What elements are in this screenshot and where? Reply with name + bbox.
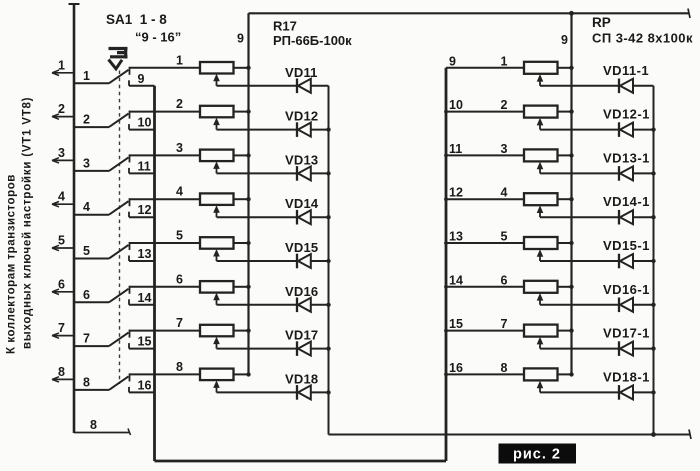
wire RP.2 terminal to bus xyxy=(558,111,572,113)
junction cable wire 13 xyxy=(444,241,448,245)
svg-text:1: 1 xyxy=(501,54,508,68)
input arrow 7 xyxy=(52,333,59,338)
potentiometer R17.2 body xyxy=(200,106,234,118)
junction VD12 cathode bus xyxy=(326,127,330,131)
wire 8 stub end tick xyxy=(128,429,131,436)
wire RP.4 terminal to bus xyxy=(558,198,572,200)
wire RP.3 terminal to bus xyxy=(558,154,572,156)
wire contact 10 to cable xyxy=(129,129,155,131)
svg-text:9: 9 xyxy=(449,54,456,68)
junction of RP diode bus with output wire xyxy=(651,432,656,437)
wire R17.7 terminal to bus xyxy=(234,330,249,332)
svg-text:7: 7 xyxy=(176,316,183,330)
wire to R17 pin 5 xyxy=(130,242,201,244)
diode VD12-1 xyxy=(619,122,633,137)
svg-text:4: 4 xyxy=(58,190,65,204)
wire to R17 pin 2 xyxy=(130,111,201,113)
wire cable 10 to RP pin 2 xyxy=(446,111,524,113)
wire input 5 xyxy=(52,247,74,249)
svg-text:6: 6 xyxy=(83,288,90,302)
junction VD14 cathode bus xyxy=(326,215,330,219)
svg-text:16: 16 xyxy=(449,361,463,375)
diode VD13-1 xyxy=(619,166,633,181)
svg-text:4: 4 xyxy=(501,186,508,200)
potentiometer RP.3 wiper arrow xyxy=(537,162,544,170)
svg-text:RP: RP xyxy=(592,15,611,30)
wire contact 12 to cable xyxy=(129,216,155,218)
svg-text:1: 1 xyxy=(83,69,90,83)
svg-text:11: 11 xyxy=(138,159,151,173)
svg-text:14: 14 xyxy=(449,273,463,287)
wire RP.1 wiper to diode xyxy=(540,85,619,87)
svg-text:8: 8 xyxy=(501,361,508,375)
wire to R17 pin 3 xyxy=(130,154,201,156)
wire contact 15 to cable xyxy=(129,348,155,350)
svg-text:7: 7 xyxy=(83,332,90,346)
junction VD18-1 anode bus xyxy=(651,390,655,394)
svg-text:R17: R17 xyxy=(273,19,297,34)
switch SA1.3 blade xyxy=(109,157,129,171)
potentiometer R17.2 wiper arrow xyxy=(213,118,220,126)
switch SA1.1 upper contact xyxy=(129,67,131,75)
wire RP.3 wiper to diode xyxy=(540,172,619,174)
svg-text:VD12-1: VD12-1 xyxy=(603,107,650,122)
junction RP.6 terminal xyxy=(569,285,573,289)
svg-text:4: 4 xyxy=(83,200,90,214)
wire RP.6 wiper to diode xyxy=(540,304,619,306)
switch SA1.1 blade xyxy=(109,70,129,84)
junction VD15-1 anode bus xyxy=(651,259,655,263)
wire VD15 to cathode bus xyxy=(311,260,329,262)
switch SA1.6 common wire xyxy=(74,301,109,303)
wire R17.4 wiper to diode xyxy=(217,216,297,218)
wire input 1 xyxy=(52,72,74,74)
input arrow 1 xyxy=(52,70,59,75)
switch SA1.5 blade xyxy=(109,245,129,259)
svg-text:VD18: VD18 xyxy=(285,371,318,386)
diode VD13 xyxy=(297,166,311,181)
wire VD11-1 to anode bus xyxy=(633,85,654,87)
wire input 7 xyxy=(52,335,74,337)
junction cable wire 15 xyxy=(444,329,448,333)
potentiometer RP.6 body xyxy=(524,281,558,293)
potentiometer R17.5 wiper arrow xyxy=(213,249,220,257)
diode VD15-1 xyxy=(619,254,633,269)
wire R17.7 wiper to diode xyxy=(217,348,297,350)
cable bus riser of RP section xyxy=(445,68,448,461)
wire contact 9 to cable xyxy=(129,85,155,87)
junction VD18 cathode bus xyxy=(326,390,330,394)
R17 pin9 terminal bus xyxy=(247,13,249,374)
svg-text:“9 - 16”: “9 - 16” xyxy=(135,30,181,45)
svg-text:6: 6 xyxy=(501,273,508,287)
wire R17.1 terminal to bus xyxy=(234,67,249,69)
switch SA1.5 lower contact xyxy=(128,256,130,262)
junction RP.8 terminal xyxy=(569,372,573,376)
cable bottom run to RP section xyxy=(155,460,447,463)
wire R17.1 wiper to diode xyxy=(217,85,297,87)
svg-text:2: 2 xyxy=(501,98,508,112)
svg-text:4: 4 xyxy=(176,185,183,199)
top supply wire xyxy=(249,12,690,14)
diode VD11 xyxy=(297,79,311,94)
wire VD18-1 to anode bus xyxy=(633,391,654,393)
svg-text:13: 13 xyxy=(449,230,463,244)
wire contact 16 to cable xyxy=(129,391,155,393)
wire VD13-1 to anode bus xyxy=(633,172,654,174)
wire contact 11 to cable xyxy=(129,172,155,174)
switch SA1.2 blade xyxy=(109,114,129,128)
potentiometer RP.4 body xyxy=(524,193,558,205)
svg-text:2: 2 xyxy=(83,113,90,127)
switch SA1.5 common wire xyxy=(74,258,109,260)
junction RP.3 terminal xyxy=(569,153,573,157)
wire to R17 pin 1 xyxy=(130,67,201,69)
wire VD12-1 to anode bus xyxy=(633,129,654,131)
svg-text:3: 3 xyxy=(176,141,183,155)
switch SA1.1 common wire xyxy=(74,82,109,84)
svg-text:VD13: VD13 xyxy=(285,152,318,167)
svg-text:VD17: VD17 xyxy=(285,328,318,343)
junction R17.3 terminal xyxy=(246,153,250,157)
wire R17.3 wiper to diode xyxy=(217,172,297,174)
potentiometer RP.2 body xyxy=(524,106,558,118)
RP diode anode bus xyxy=(653,86,655,435)
svg-text:6: 6 xyxy=(176,272,183,286)
switch SA1.6 upper contact xyxy=(129,286,131,294)
junction VD16 cathode bus xyxy=(326,303,330,307)
junction RP.4 terminal xyxy=(569,197,573,201)
potentiometer RP.3 body xyxy=(524,149,558,161)
svg-text:VD15-1: VD15-1 xyxy=(603,238,650,253)
potentiometer RP.8 wiper arrow xyxy=(537,381,544,389)
potentiometer R17.4 wiper arrow xyxy=(213,205,220,213)
wire contact 13 to cable xyxy=(129,260,155,262)
svg-text:14: 14 xyxy=(138,291,152,305)
wire VD14 to cathode bus xyxy=(311,216,329,218)
wire R17.2 wiper to diode xyxy=(217,129,297,131)
potentiometer R17.6 body xyxy=(200,281,234,293)
junction VD17 cathode bus xyxy=(326,346,330,350)
svg-text:выходных ключей настройки (VT1: выходных ключей настройки (VT1 VT8) xyxy=(22,97,34,349)
switch SA1.7 lower contact xyxy=(128,343,130,349)
svg-text:СП 3-42 8х100к: СП 3-42 8х100к xyxy=(592,31,693,46)
switch SA1.8 lower contact xyxy=(128,387,130,393)
potentiometer R17.1 body xyxy=(200,62,234,74)
diode VD15 xyxy=(297,254,311,269)
junction RP.2 terminal xyxy=(569,109,573,113)
switch SA1.4 upper contact xyxy=(129,198,131,206)
potentiometer RP.1 wiper arrow xyxy=(537,74,544,82)
svg-text:К коллекторам транзисторов: К коллекторам транзисторов xyxy=(6,174,18,354)
wire RP.4 wiper to diode xyxy=(540,216,619,218)
wire input 4 xyxy=(52,203,74,205)
svg-text:5: 5 xyxy=(501,230,508,244)
junction VD13-1 anode bus xyxy=(651,171,655,175)
junction VD15 cathode bus xyxy=(326,259,330,263)
wire R17.6 wiper to diode xyxy=(217,304,297,306)
switch SA1.4 common wire xyxy=(74,214,109,216)
diode VD16-1 xyxy=(619,298,633,313)
svg-text:VD16: VD16 xyxy=(285,284,318,299)
diode VD14-1 xyxy=(619,210,633,225)
input arrow 2 xyxy=(52,114,59,119)
svg-text:2: 2 xyxy=(176,97,183,111)
wire VD17 to cathode bus xyxy=(311,348,329,350)
diode VD18-1 xyxy=(619,385,633,400)
potentiometer R17.7 wiper arrow xyxy=(213,337,220,345)
wire RP.7 terminal to bus xyxy=(558,330,572,332)
svg-text:9: 9 xyxy=(237,32,244,46)
svg-text:8: 8 xyxy=(58,365,65,379)
svg-text:1: 1 xyxy=(58,58,65,72)
svg-text:VD13-1: VD13-1 xyxy=(603,150,650,165)
left input cable bus xyxy=(73,4,76,433)
potentiometer R17.4 body xyxy=(200,193,234,205)
junction cable wire 14 xyxy=(444,285,448,289)
potentiometer RP.4 wiper arrow xyxy=(537,205,544,213)
switch SA1.6 blade xyxy=(109,289,129,303)
wire RP.1 terminal to bus xyxy=(558,67,572,69)
wire RP.8 terminal to bus xyxy=(558,373,572,375)
junction VD12-1 anode bus xyxy=(651,127,655,131)
svg-text:3: 3 xyxy=(501,142,508,156)
potentiometer RP.2 wiper arrow xyxy=(537,118,544,126)
wire VD17-1 to anode bus xyxy=(633,348,654,350)
svg-text:16: 16 xyxy=(138,378,152,392)
svg-text:8: 8 xyxy=(83,375,90,389)
potentiometer R17.8 body xyxy=(200,369,234,381)
svg-text:5: 5 xyxy=(176,229,183,243)
cable bus of contacts 9-16 (left) xyxy=(153,86,156,461)
svg-text:11: 11 xyxy=(449,142,462,156)
gang dashed line of SA1 xyxy=(119,71,121,385)
diode VD16 xyxy=(297,298,311,313)
svg-text:VD14: VD14 xyxy=(285,196,319,211)
wire VD18 to cathode bus xyxy=(311,391,329,393)
wire R17.6 terminal to bus xyxy=(234,286,249,288)
junction RP.7 terminal xyxy=(569,328,573,332)
input arrow 6 xyxy=(52,289,59,294)
switch SA1.1 lower contact xyxy=(128,80,130,86)
junction cable wire 11 xyxy=(444,154,448,158)
potentiometer RP.5 wiper arrow xyxy=(537,249,544,257)
diode VD18 xyxy=(297,385,311,400)
caption ris. 2 xyxy=(499,444,577,464)
switch SA1.3 common wire xyxy=(74,170,109,172)
potentiometer R17.3 wiper arrow xyxy=(213,161,220,169)
output wire at bottom xyxy=(329,434,691,436)
wire to R17 pin 8 xyxy=(130,373,201,375)
input arrow 4 xyxy=(52,202,59,207)
switch SA1.2 upper contact xyxy=(129,111,131,119)
wire VD14-1 to anode bus xyxy=(633,216,654,218)
potentiometer RP.7 body xyxy=(524,325,558,337)
junction VD14-1 anode bus xyxy=(651,215,655,219)
wire VD16 to cathode bus xyxy=(311,304,329,306)
svg-text:15: 15 xyxy=(138,335,152,349)
svg-text:9: 9 xyxy=(561,33,568,47)
svg-text:РП-66Б-100к: РП-66Б-100к xyxy=(273,33,352,48)
svg-text:2: 2 xyxy=(58,102,65,116)
input arrow 8 xyxy=(52,377,59,382)
switch SA1.7 upper contact xyxy=(129,330,131,338)
svg-text:VD12: VD12 xyxy=(285,109,318,124)
junction R17.8 terminal xyxy=(246,372,250,376)
svg-text:7: 7 xyxy=(501,317,508,331)
svg-text:VD15: VD15 xyxy=(285,240,318,255)
wire cable 16 to RP pin 8 xyxy=(446,373,524,375)
junction of RP pin9 bus with top wire xyxy=(569,11,574,16)
svg-text:5: 5 xyxy=(83,244,90,258)
wire input 8 xyxy=(52,378,74,380)
svg-text:5: 5 xyxy=(58,234,65,248)
wire 8 stub at bottom xyxy=(74,432,129,434)
wire VD13 to cathode bus xyxy=(311,172,329,174)
svg-text:13: 13 xyxy=(138,247,152,261)
svg-text:7: 7 xyxy=(58,321,65,335)
junction cable wire 12 xyxy=(444,197,448,201)
potentiometer R17.6 wiper arrow xyxy=(213,293,220,301)
wire contact 14 to cable xyxy=(129,304,155,306)
svg-text:VD14-1: VD14-1 xyxy=(603,194,650,209)
potentiometer R17.5 body xyxy=(200,237,234,249)
left bus top tick xyxy=(69,3,80,5)
junction cable wire 10 xyxy=(444,110,448,114)
svg-text:3: 3 xyxy=(83,156,90,170)
svg-text:9: 9 xyxy=(138,72,145,86)
top wire end tick xyxy=(688,9,690,19)
output wire end tick xyxy=(689,430,691,440)
wire R17.2 terminal to bus xyxy=(234,111,249,113)
junction R17.2 terminal xyxy=(246,109,250,113)
switch SA1.8 common wire xyxy=(74,389,109,391)
svg-text:рис. 2: рис. 2 xyxy=(513,447,561,463)
junction RP.1 terminal xyxy=(569,66,573,70)
potentiometer R17.1 wiper arrow xyxy=(213,74,220,82)
wire RP.6 terminal to bus xyxy=(558,286,572,288)
svg-text:12: 12 xyxy=(138,203,152,217)
potentiometer RP.5 body xyxy=(524,237,558,249)
junction VD13 cathode bus xyxy=(326,171,330,175)
wire VD16-1 to anode bus xyxy=(633,304,654,306)
wire R17.3 terminal to bus xyxy=(234,154,249,156)
wire cable 11 to RP pin 3 xyxy=(446,154,524,156)
wire input 6 xyxy=(52,291,74,293)
junction cable wire 16 xyxy=(444,373,448,377)
potentiometer RP.1 body xyxy=(524,62,558,74)
wire RP.5 wiper to diode xyxy=(540,260,619,262)
junction RP.5 terminal xyxy=(569,241,573,245)
wire input 3 xyxy=(52,159,74,161)
switch SA1.2 lower contact xyxy=(128,124,130,130)
wire RP.7 wiper to diode xyxy=(540,348,619,350)
potentiometer R17.7 body xyxy=(200,325,234,337)
junction VD16-1 anode bus xyxy=(651,303,655,307)
wire cable 9 to RP pin 1 xyxy=(446,67,524,69)
switch SA1.2 common wire xyxy=(74,126,109,128)
diode VD11-1 xyxy=(619,79,633,94)
svg-text:10: 10 xyxy=(449,98,463,112)
switch SA1.7 blade xyxy=(109,333,129,347)
wire R17.8 terminal to bus xyxy=(234,373,249,375)
svg-text:8: 8 xyxy=(90,418,97,432)
switch SA1.4 blade xyxy=(109,201,129,215)
junction R17.6 terminal xyxy=(246,285,250,289)
switch SA1.8 upper contact xyxy=(129,373,131,381)
svg-text:VD18-1: VD18-1 xyxy=(603,369,650,384)
switch SA1.5 upper contact xyxy=(129,242,131,250)
junction R17.4 terminal xyxy=(246,197,250,201)
wire cable 14 to RP pin 6 xyxy=(446,286,524,288)
svg-text:VD16-1: VD16-1 xyxy=(603,282,650,297)
switch SA1 actuator symbol xyxy=(109,47,128,69)
wire RP.8 wiper to diode xyxy=(540,391,619,393)
svg-text:6: 6 xyxy=(58,277,65,291)
junction VD17-1 anode bus xyxy=(651,346,655,350)
svg-text:VD11: VD11 xyxy=(285,65,318,80)
svg-text:SA1 1 - 8: SA1 1 - 8 xyxy=(106,12,167,27)
junction R17.1 terminal xyxy=(246,66,250,70)
wire RP.5 terminal to bus xyxy=(558,242,572,244)
svg-text:1: 1 xyxy=(176,53,183,67)
RP pin9 terminal bus xyxy=(570,13,572,374)
wire to R17 pin 6 xyxy=(130,286,201,288)
svg-text:VD17-1: VD17-1 xyxy=(603,326,650,341)
wire VD15-1 to anode bus xyxy=(633,260,654,262)
switch SA1.8 blade xyxy=(109,376,129,390)
wire VD11 to cathode bus xyxy=(311,85,329,87)
wire input 2 xyxy=(52,116,74,118)
svg-text:15: 15 xyxy=(449,317,463,331)
input arrow 3 xyxy=(52,158,59,163)
wire to R17 pin 4 xyxy=(130,198,201,200)
switch SA1.6 lower contact xyxy=(128,299,130,305)
wire cable 13 to RP pin 5 xyxy=(446,242,524,244)
input arrow 5 xyxy=(52,245,59,250)
switch SA1.7 common wire xyxy=(74,345,109,347)
svg-text:8: 8 xyxy=(176,360,183,374)
potentiometer RP.8 body xyxy=(524,368,558,380)
wire R17.8 wiper to diode xyxy=(217,391,297,393)
wire RP.2 wiper to diode xyxy=(540,129,619,131)
diode VD12 xyxy=(297,122,311,137)
switch SA1.4 lower contact xyxy=(128,212,130,218)
wire cable 15 to RP pin 7 xyxy=(446,330,524,332)
diode VD17-1 xyxy=(619,341,633,356)
junction R17.7 terminal xyxy=(246,328,250,332)
wire VD12 to cathode bus xyxy=(311,129,329,131)
potentiometer RP.7 wiper arrow xyxy=(537,337,544,345)
potentiometer RP.6 wiper arrow xyxy=(537,293,544,301)
R17 diode cathode bus xyxy=(328,86,330,435)
wire to R17 pin 7 xyxy=(130,330,201,332)
svg-text:12: 12 xyxy=(449,186,463,200)
potentiometer R17.8 wiper arrow xyxy=(213,380,220,388)
diode VD14 xyxy=(297,210,311,225)
svg-text:3: 3 xyxy=(58,146,65,160)
wire R17.4 terminal to bus xyxy=(234,198,249,200)
potentiometer R17.3 body xyxy=(200,150,234,162)
diode VD17 xyxy=(297,341,311,356)
junction R17.5 terminal xyxy=(246,241,250,245)
wire cable 12 to RP pin 4 xyxy=(446,198,524,200)
wire R17.5 terminal to bus xyxy=(234,242,249,244)
switch SA1.3 lower contact xyxy=(128,168,130,174)
svg-text:VD11-1: VD11-1 xyxy=(603,63,649,78)
switch SA1.3 upper contact xyxy=(129,154,131,162)
wire R17.5 wiper to diode xyxy=(217,260,297,262)
